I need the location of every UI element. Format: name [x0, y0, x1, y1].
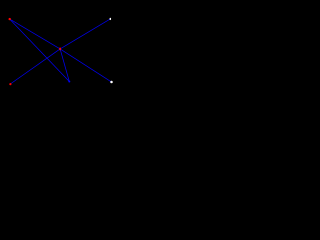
edge N2-N5	[60, 49, 111, 82]
edge N2-N4	[60, 19, 110, 49]
node N5 white	[110, 81, 113, 84]
node N3 red	[9, 83, 11, 85]
node N2 red center	[59, 47, 61, 50]
edge N2-N3	[10, 49, 60, 84]
node N4 white	[110, 18, 112, 20]
node N1 red	[9, 18, 11, 20]
background	[0, 0, 120, 103]
edge N1-N6	[10, 19, 70, 81]
node N6 blue	[68, 81, 70, 83]
edge N2-N6	[60, 49, 69, 82]
edge N1-N2	[10, 19, 60, 49]
